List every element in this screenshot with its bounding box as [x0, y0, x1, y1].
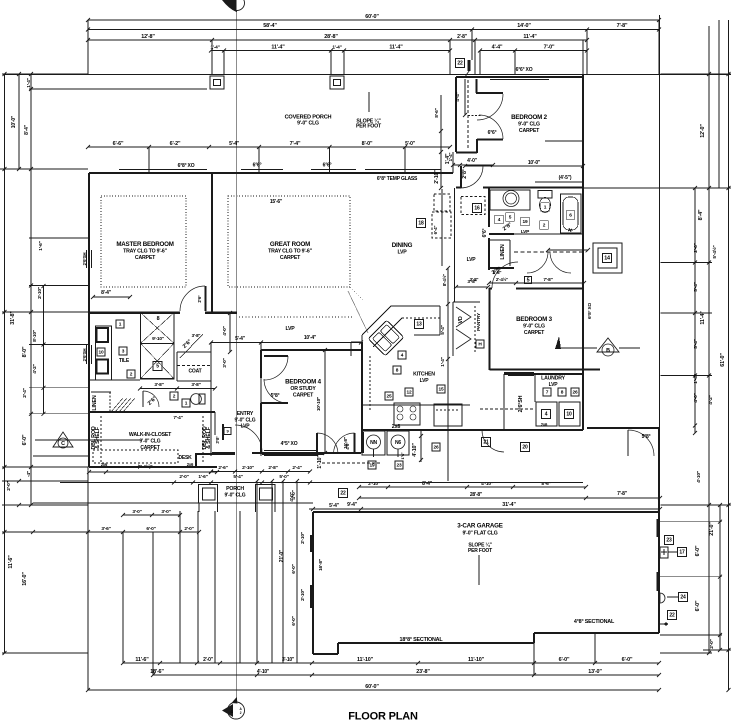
svg-text:LVP: LVP: [420, 378, 430, 384]
svg-text:23: 23: [397, 463, 402, 469]
svg-text:6'-2": 6'-2": [170, 141, 181, 147]
svg-text:12: 12: [407, 390, 412, 396]
svg-text:1'-10": 1'-10": [317, 455, 323, 469]
svg-text:8'-6": 8'-6": [434, 108, 440, 117]
svg-text:2°6°: 2°6°: [197, 295, 202, 303]
svg-text:7'-4": 7'-4": [173, 415, 182, 421]
svg-text:13'-0": 13'-0": [588, 669, 602, 675]
svg-text:2'-4½": 2'-4½": [496, 276, 508, 282]
svg-text:14'-0": 14'-0": [517, 23, 531, 29]
svg-text:2'-0": 2'-0": [179, 474, 188, 480]
svg-text:11'-10": 11'-10": [357, 657, 374, 663]
svg-text:PORCH: PORCH: [226, 486, 244, 492]
svg-text:3'-0": 3'-0": [222, 358, 228, 367]
svg-text:3'-10": 3'-10": [282, 657, 295, 663]
svg-text:7'-4": 7'-4": [290, 141, 301, 147]
svg-text:2x6: 2x6: [541, 422, 548, 427]
svg-text:8'-10": 8'-10": [32, 330, 38, 342]
svg-text:2'-0": 2'-0": [709, 639, 715, 648]
svg-text:2'-6": 2'-6": [218, 465, 227, 471]
svg-text:5'-4½": 5'-4½": [711, 245, 718, 258]
svg-text:5'-4": 5'-4": [329, 503, 340, 509]
svg-text:TRAY CLG TO 9'-6": TRAY CLG TO 9'-6": [268, 249, 312, 255]
svg-text:4'-2": 4'-2": [708, 395, 714, 404]
svg-text:5: 5: [527, 278, 530, 284]
svg-text:& SHELF: & SHELF: [95, 426, 101, 449]
svg-text:7'-8": 7'-8": [617, 491, 628, 497]
svg-text:3°8°: 3°8°: [215, 436, 220, 444]
svg-text:6°8° XO: 6°8° XO: [587, 303, 593, 320]
svg-text:9'-0" CLG: 9'-0" CLG: [297, 121, 319, 127]
svg-text:2'-10": 2'-10": [434, 170, 440, 184]
svg-text:11'-4": 11'-4": [700, 311, 706, 325]
svg-text:17: 17: [679, 550, 685, 556]
svg-text:2'-0": 2'-0": [184, 526, 193, 532]
svg-text:(5'-4½)": (5'-4½)": [138, 463, 153, 469]
svg-text:4'-0": 4'-0": [222, 326, 228, 335]
svg-text:KITCHEN: KITCHEN: [413, 372, 435, 378]
svg-text:PER FOOT: PER FOOT: [356, 124, 382, 130]
svg-text:5°8°: 5°8°: [642, 434, 651, 440]
svg-text:4'-10": 4'-10": [696, 471, 702, 483]
svg-text:2°6°SH: 2°6°SH: [518, 395, 524, 412]
svg-text:61'-0": 61'-0": [720, 353, 726, 367]
svg-text:11'-6": 11'-6": [135, 657, 149, 663]
svg-text:8'-4": 8'-4": [24, 124, 30, 135]
svg-text:4'-4": 4'-4": [455, 92, 461, 101]
svg-text:16: 16: [474, 206, 480, 212]
svg-text:8'-4": 8'-4": [101, 290, 112, 296]
svg-text:4°5° XO: 4°5° XO: [281, 441, 298, 447]
svg-text:1°6°: 1°6°: [400, 452, 405, 459]
svg-text:6°8° XO: 6°8° XO: [178, 163, 195, 169]
svg-text:3'-8": 3'-8": [192, 333, 201, 338]
svg-text:8: 8: [157, 316, 160, 322]
svg-text:16'-8": 16'-8": [318, 559, 324, 571]
svg-text:18'-6": 18'-6": [150, 669, 164, 675]
svg-text:3'-8": 3'-8": [154, 382, 163, 388]
svg-text:LVP: LVP: [467, 257, 477, 263]
svg-text:5'-0": 5'-0": [405, 141, 416, 147]
svg-text:10'-4": 10'-4": [304, 335, 317, 341]
svg-text:15'-6": 15'-6": [270, 199, 283, 205]
svg-text:5: 5: [156, 364, 159, 370]
svg-text:2'-10": 2'-10": [368, 481, 380, 487]
svg-text:4'-4": 4'-4": [492, 45, 503, 51]
svg-text:4'-10": 4'-10": [412, 443, 418, 457]
svg-text:2'-8": 2'-8": [457, 34, 468, 40]
svg-text:28'-8": 28'-8": [324, 34, 338, 40]
svg-text:6°6°: 6°6°: [323, 163, 332, 169]
svg-text:6'-0": 6'-0": [622, 657, 633, 663]
svg-text:2'-10": 2'-10": [300, 589, 306, 601]
svg-text:28'-8": 28'-8": [470, 492, 483, 498]
svg-text:4'-2": 4'-2": [32, 364, 38, 373]
svg-text:5'-4": 5'-4": [229, 141, 240, 147]
svg-text:23'-8": 23'-8": [416, 669, 430, 675]
svg-text:26: 26: [434, 445, 439, 451]
svg-text:FLOOR PLAN: FLOOR PLAN: [348, 711, 418, 720]
svg-text:3'-0": 3'-0": [161, 509, 170, 515]
svg-text:4'-0": 4'-0": [693, 393, 699, 402]
svg-text:4°6°: 4°6°: [345, 442, 350, 450]
svg-text:LINEN: LINEN: [500, 244, 506, 259]
svg-text:18°8° SECTIONAL: 18°8° SECTIONAL: [400, 637, 444, 643]
svg-text:LVP: LVP: [397, 250, 407, 256]
svg-text:1'-4": 1'-4": [26, 78, 32, 87]
svg-text:22: 22: [669, 613, 675, 619]
svg-text:2'-10": 2'-10": [37, 287, 43, 299]
svg-text:10: 10: [566, 412, 572, 418]
svg-text:4'-0": 4'-0": [467, 158, 478, 164]
svg-text:23: 23: [666, 538, 672, 544]
svg-text:10'-10": 10'-10": [316, 397, 322, 411]
svg-text:2'-0": 2'-0": [6, 481, 12, 490]
svg-text:PANTRY: PANTRY: [476, 312, 482, 331]
svg-text:58'-4": 58'-4": [263, 23, 277, 29]
svg-text:1'-4": 1'-4": [440, 357, 446, 366]
svg-text:2'-10": 2'-10": [242, 465, 254, 471]
svg-text:8'-4": 8'-4": [698, 209, 704, 220]
svg-text:16'-0": 16'-0": [22, 572, 28, 586]
svg-text:2'-0": 2'-0": [203, 657, 214, 663]
svg-text:NN: NN: [370, 440, 377, 446]
svg-text:11'-10": 11'-10": [468, 657, 485, 663]
svg-text:OR STUDY: OR STUDY: [290, 386, 316, 392]
svg-text:10: 10: [99, 350, 104, 356]
svg-text:15: 15: [439, 387, 444, 393]
svg-text:CARPET: CARPET: [135, 255, 156, 261]
svg-text:CARPET: CARPET: [280, 255, 301, 261]
svg-text:LINEN: LINEN: [92, 395, 98, 410]
svg-text:10'-0": 10'-0": [11, 115, 17, 128]
svg-text:60'-0": 60'-0": [365, 14, 379, 20]
svg-text:3'-8": 3'-8": [191, 382, 200, 388]
svg-text:CARPET: CARPET: [524, 330, 545, 336]
svg-text:TRAY CLG TO 9'-6": TRAY CLG TO 9'-6": [123, 249, 167, 255]
svg-text:11'-6": 11'-6": [8, 555, 14, 569]
svg-text:6°6°: 6°6°: [253, 163, 262, 169]
svg-text:6'-0": 6'-0": [695, 600, 701, 611]
svg-text:LAUNDRY: LAUNDRY: [541, 376, 566, 382]
svg-text:7'-0": 7'-0": [544, 45, 555, 51]
svg-text:DESK: DESK: [178, 455, 192, 461]
svg-text:1'-4": 1'-4": [332, 45, 341, 51]
svg-text:VD: VD: [458, 316, 464, 323]
svg-text:21'-0": 21'-0": [279, 549, 285, 562]
svg-text:2'-4": 2'-4": [292, 465, 301, 471]
svg-text:31'-8": 31'-8": [10, 311, 16, 325]
svg-text:6'-6": 6'-6": [113, 141, 124, 147]
svg-text:19: 19: [523, 219, 528, 225]
svg-text:2'-10": 2'-10": [300, 532, 306, 544]
svg-text:2'-8": 2'-8": [268, 465, 277, 471]
svg-text:9'-0" FLAT CLG: 9'-0" FLAT CLG: [462, 531, 497, 537]
svg-text:5'-4": 5'-4": [693, 339, 699, 348]
svg-text:2°8°: 2°8°: [462, 169, 468, 179]
svg-text:8'-0": 8'-0": [22, 346, 28, 357]
svg-text:4'-10": 4'-10": [257, 669, 270, 675]
svg-text:CARPET: CARPET: [293, 393, 314, 399]
svg-text:CARPET: CARPET: [519, 128, 540, 134]
svg-text:3'-0": 3'-0": [132, 509, 141, 515]
svg-text:9'-10": 9'-10": [152, 336, 164, 342]
svg-text:LVP: LVP: [549, 382, 559, 388]
svg-text:1'-4": 1'-4": [693, 374, 699, 383]
svg-text:18: 18: [418, 221, 424, 227]
svg-text:6°8° TEMP GLASS: 6°8° TEMP GLASS: [377, 176, 418, 182]
svg-text:BEDROOM 2: BEDROOM 2: [511, 114, 547, 121]
svg-text:20: 20: [522, 445, 528, 451]
svg-text:4: 4: [545, 412, 548, 418]
svg-text:8'-4½": 8'-4½": [441, 274, 447, 286]
svg-text:7'-8": 7'-8": [543, 277, 552, 283]
svg-text:9'-0" CLG: 9'-0" CLG: [523, 324, 545, 330]
svg-text:BEDROOM 4: BEDROOM 4: [285, 379, 321, 386]
svg-text:10'-0": 10'-0": [528, 160, 541, 166]
svg-text:9'-0" CLG: 9'-0" CLG: [518, 122, 540, 128]
svg-text:GREAT ROOM: GREAT ROOM: [270, 241, 310, 248]
svg-text:5'-4": 5'-4": [235, 336, 246, 342]
svg-text:-4": -4": [26, 471, 32, 477]
svg-text:TILE: TILE: [119, 358, 130, 364]
svg-text:6'-0": 6'-0": [291, 564, 297, 573]
svg-text:3-CAR GARAGE: 3-CAR GARAGE: [457, 523, 502, 530]
svg-text:C: C: [61, 441, 65, 447]
svg-text:5°8°: 5°8°: [271, 393, 280, 399]
svg-text:5'-4": 5'-4": [233, 474, 242, 480]
svg-text:19: 19: [370, 463, 375, 469]
svg-text:1'-6": 1'-6": [198, 474, 207, 480]
svg-text:1'-6": 1'-6": [38, 241, 44, 250]
svg-text:26: 26: [573, 390, 578, 396]
svg-text:B: B: [606, 348, 610, 354]
svg-text:9'-4": 9'-4": [347, 502, 358, 508]
svg-text:2x6: 2x6: [187, 462, 194, 467]
svg-text:31'-4": 31'-4": [502, 502, 516, 508]
svg-text:25: 25: [387, 394, 392, 400]
svg-text:13: 13: [416, 322, 422, 328]
svg-text:8'-0": 8'-0": [362, 141, 373, 147]
svg-text:2x6: 2x6: [392, 424, 401, 430]
svg-text:LVP: LVP: [285, 326, 295, 332]
svg-text:5'-0": 5'-0": [279, 474, 288, 480]
svg-text:COAT: COAT: [189, 369, 202, 375]
svg-text:6°6°: 6°6°: [488, 130, 497, 136]
svg-text:6'-0": 6'-0": [559, 657, 570, 663]
svg-text:21'-0": 21'-0": [709, 522, 715, 536]
svg-text:PER FOOT: PER FOOT: [468, 548, 492, 554]
svg-text:DINING: DINING: [392, 242, 413, 249]
svg-text:7'-8": 7'-8": [617, 23, 628, 29]
svg-text:8'-6": 8'-6": [541, 481, 550, 487]
svg-text:12'-8": 12'-8": [141, 34, 155, 40]
svg-text:(4'-5"): (4'-5"): [559, 175, 572, 181]
svg-text:8'-4": 8'-4": [422, 481, 433, 487]
svg-text:6'-0": 6'-0": [146, 526, 155, 532]
svg-text:1'-4": 1'-4": [445, 153, 451, 164]
svg-text:12'-0": 12'-0": [700, 124, 706, 138]
svg-text:2'-6": 2'-6": [693, 243, 699, 252]
svg-text:2'-4": 2'-4": [22, 388, 28, 397]
svg-text:22: 22: [457, 61, 463, 67]
svg-text:3'-6": 3'-6": [101, 526, 110, 532]
svg-text:24: 24: [680, 595, 686, 601]
svg-text:11'-4": 11'-4": [271, 45, 285, 51]
svg-text:4'-0": 4'-0": [289, 492, 295, 501]
svg-text:14: 14: [604, 256, 610, 262]
svg-text:6°6° XO: 6°6° XO: [516, 67, 533, 73]
svg-text:11'-4": 11'-4": [389, 45, 403, 51]
svg-text:BEDROOM 3: BEDROOM 3: [516, 316, 552, 323]
svg-text:22: 22: [340, 491, 346, 497]
svg-text:5'-4": 5'-4": [440, 325, 446, 334]
svg-text:9'-0" CLG: 9'-0" CLG: [140, 439, 161, 445]
svg-text:WALK-IN-CLOSET: WALK-IN-CLOSET: [129, 432, 172, 438]
svg-text:5'-4": 5'-4": [693, 282, 699, 291]
svg-text:11'-4": 11'-4": [523, 34, 537, 40]
svg-text:6'-0": 6'-0": [695, 545, 701, 556]
svg-text:MASTER BEDROOM: MASTER BEDROOM: [116, 241, 173, 248]
svg-text:6'-0": 6'-0": [291, 616, 297, 625]
svg-text:6°6°: 6°6°: [482, 228, 488, 237]
svg-text:6'-4": 6'-4": [433, 226, 438, 235]
svg-text:6'-0": 6'-0": [22, 434, 28, 445]
svg-text:N6: N6: [395, 440, 401, 446]
svg-text:4'-10": 4'-10": [481, 481, 493, 487]
svg-text:4°8° SECTIONAL: 4°8° SECTIONAL: [574, 619, 615, 625]
svg-text:60'-0": 60'-0": [365, 684, 379, 690]
svg-text:9'-0" CLG: 9'-0" CLG: [225, 493, 246, 499]
svg-text:ENTRY: ENTRY: [237, 411, 254, 417]
svg-text:3'-8": 3'-8": [470, 277, 479, 282]
